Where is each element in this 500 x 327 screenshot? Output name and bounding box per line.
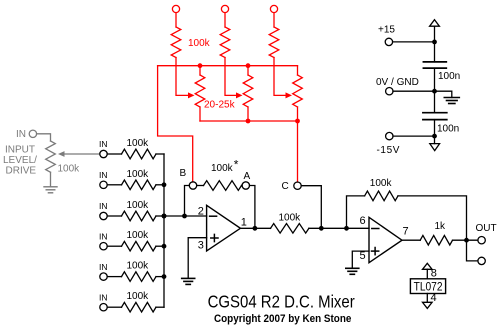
wire red: input2 resistor to trimmer 2 wiper [225, 58, 236, 96]
wire: bus to op-amp pin 2 [164, 215, 207, 217]
junction dot trimmer1 top [198, 63, 203, 68]
wire: op-amp1 output [240, 227, 270, 229]
wire: C to op-amp2 input node [301, 186, 321, 229]
gray wiper arrow to IN 1 [62, 153, 100, 155]
svg-text:100k: 100k [188, 38, 211, 49]
svg-text:Copyright 2007 by Ken Stone: Copyright 2007 by Ken Stone [214, 313, 352, 325]
svg-text:CGS04 R2 D.C. Mixer: CGS04 R2 D.C. Mixer [208, 292, 356, 311]
svg-text:100k: 100k [127, 230, 150, 241]
svg-text:100k: 100k [127, 261, 150, 272]
wire: 1k to OUT [453, 239, 478, 241]
svg-text:IN: IN [99, 262, 108, 272]
IC U1 TL072 [410, 279, 445, 294]
ground (op-amp2 pin5) [346, 267, 359, 269]
junction dot summing bus [162, 274, 167, 279]
junction dot trimmer2 bottom [246, 119, 251, 124]
wire: output node down to OUT jack 2 [467, 240, 478, 261]
svg-text:100k: 100k [58, 164, 81, 175]
gray wire: jack to pot top [37, 134, 51, 141]
wire: op-amp2 output to 1k [402, 239, 420, 241]
svg-text:B: B [180, 168, 187, 179]
svg-text:2: 2 [198, 206, 204, 218]
-15V terminal [386, 132, 393, 139]
svg-text:20-25k: 20-25k [204, 100, 236, 111]
junction dot A-output [253, 226, 258, 231]
red input jack J3 [270, 5, 277, 27]
trimmer VR2 20-25k [247, 66, 249, 75]
wire: B to summing node [185, 186, 190, 217]
wire: gnd stub right [435, 91, 452, 97]
svg-text:100k: 100k [370, 178, 393, 189]
plus sign pin5 [372, 250, 379, 252]
resistor 100k (input 5) [107, 276, 121, 278]
resistor 1k [420, 235, 452, 245]
svg-text:1k: 1k [435, 221, 447, 232]
gray wire: pot bottom to ground [50, 172, 52, 187]
svg-text:DRIVE: DRIVE [6, 165, 37, 176]
-V power symbol (down triangle) [430, 144, 440, 151]
svg-text:IN: IN [99, 170, 108, 180]
resistor 100k (input 2) [107, 184, 121, 186]
junction dot output node [464, 238, 469, 243]
wire: feedback to output node [398, 196, 467, 240]
junction dot B-pin2 [182, 214, 187, 219]
junction dot bus-pin2 [162, 214, 167, 219]
wire: summing bus vertical [163, 154, 165, 307]
svg-text:*: * [234, 158, 239, 172]
resistor 100k (input 1) [107, 153, 121, 155]
svg-text:+15: +15 [378, 25, 395, 36]
svg-text:1: 1 [241, 217, 247, 229]
svg-text:IN: IN [99, 201, 108, 211]
resistor 100k (input 6) [107, 306, 121, 308]
wire red: bottom bus [200, 120, 298, 122]
svg-text:A: A [244, 171, 251, 182]
resistor 100k (input 3) [107, 215, 121, 217]
svg-text:100k: 100k [279, 212, 302, 223]
junction dot summing bus [162, 214, 167, 219]
trimmer VR3 20-25k [297, 66, 299, 75]
ground (power) [444, 97, 459, 99]
resistor 100k (op1 out to op2 in) [271, 224, 309, 234]
wire: A to op-amp1 output [250, 186, 255, 229]
svg-text:IN: IN [99, 292, 108, 302]
red input jack J1 [172, 5, 179, 27]
svg-text:100k: 100k [127, 169, 150, 180]
svg-text:-15V: -15V [377, 145, 401, 156]
svg-text:5: 5 [360, 250, 366, 262]
svg-text:100k: 100k [127, 200, 150, 211]
plus sign pin3 [211, 237, 218, 239]
+V power symbol (up triangle) [430, 20, 440, 27]
junction dot summing bus [162, 182, 167, 187]
junction dot trimmer2 top [246, 63, 251, 68]
wire: feedback up [347, 196, 365, 228]
svg-text:6: 6 [360, 215, 366, 227]
resistor 100k (input 4) [107, 245, 121, 247]
wire red: input3 resistor to trimmer 3 wiper [274, 58, 286, 96]
svg-text:OUT: OUT [476, 223, 497, 234]
OUT jack 2 [478, 257, 485, 264]
op-amp U1b (pins 6,5,7) [369, 217, 402, 262]
wire: resistor to op-amp2 pin6 [309, 227, 369, 229]
svg-text:3: 3 [198, 240, 204, 252]
svg-text:C: C [282, 181, 289, 192]
svg-text:TL072: TL072 [414, 281, 443, 294]
svg-text:LEVEL/: LEVEL/ [3, 155, 37, 166]
capacitor C1 100n [423, 61, 446, 63]
svg-text:7: 7 [403, 226, 409, 238]
minus sign pin6 [372, 228, 379, 230]
wire red: top bus [158, 65, 298, 67]
trimmer VR1 20-25k [199, 66, 201, 75]
wire: pin5 to ground [352, 251, 369, 268]
resistor 100k (red, input 1) [171, 27, 181, 58]
TL072 pin 4 power arrow [426, 294, 428, 303]
wire red: bottom bus to node C [297, 121, 299, 182]
svg-text:IN: IN [99, 139, 108, 149]
power rail vertical [434, 26, 436, 62]
junction dot summing bus [162, 244, 167, 249]
TL072 pin 8 power arrow [423, 263, 433, 269]
junction dot C-node [319, 226, 324, 231]
OUT jack 1 [478, 237, 485, 244]
svg-text:100n: 100n [437, 123, 459, 134]
ground (op-amp1 pin3) [182, 277, 195, 279]
wire red: input1 resistor to trimmer 1 wiper [176, 58, 188, 96]
svg-text:IN: IN [99, 231, 108, 241]
resistor 100k* B-A [204, 181, 242, 191]
red input jack J2 [221, 5, 228, 27]
capacitor C2 100n [423, 112, 447, 114]
svg-text:100k: 100k [211, 163, 234, 174]
svg-text:0V / GND: 0V / GND [376, 77, 419, 88]
potentiometer 100k INPUT LEVEL/DRIVE [46, 141, 56, 172]
junction dot feedback-node [344, 226, 349, 231]
svg-text:100k: 100k [127, 138, 150, 149]
wire: pin3 to ground [188, 238, 206, 279]
op-amp U1a (pins 2,3,1) [207, 205, 241, 251]
junction dot trimmer3 bottom [295, 119, 300, 124]
ground (gray) [44, 186, 57, 188]
svg-text:IN: IN [16, 129, 26, 140]
minus sign pin2 [210, 215, 217, 217]
svg-text:100k: 100k [127, 291, 150, 302]
svg-text:8: 8 [431, 268, 437, 280]
wire red: bus left end down-right to node B [158, 66, 193, 182]
resistor 100k (op-amp2 feedback) [365, 191, 398, 201]
resistor 100k (red, input 2) [220, 27, 230, 58]
resistor 100k (red, input 3) [269, 27, 279, 58]
svg-text:100n: 100n [438, 71, 460, 82]
